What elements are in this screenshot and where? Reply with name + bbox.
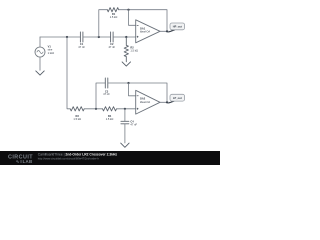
wire: R1 to output node [119, 10, 167, 32]
wire: C3 to LP output node [108, 83, 167, 102]
node: OA1 output junction [166, 30, 168, 32]
svg-text:1 kHz: 1 kHz [48, 51, 55, 55]
svg-text:Ideal-OA: Ideal-OA [140, 30, 151, 34]
svg-text:1.5 kΩ: 1.5 kΩ [110, 15, 118, 19]
node: junction to LP branch [66, 36, 68, 38]
resistor R4 [103, 107, 117, 111]
svg-text:CamilloantiThree | 2nd-Order L: CamilloantiThree | 2nd-Order LR2 Crossov… [38, 153, 118, 157]
OA1 label "OA1 Ideal-OA" [140, 26, 151, 33]
resistor R3 [70, 107, 84, 111]
svg-text:HP_out: HP_out [173, 25, 182, 29]
op-amp OA1 [136, 20, 160, 43]
ground (below V1) [36, 71, 44, 75]
wire: feedback down to op-amp - input [129, 10, 136, 26]
R2 label "R2 1.5 kΩ" [130, 45, 138, 52]
capacitor C1 [80, 32, 83, 42]
wire: OA1 output stub [160, 30, 170, 32]
svg-text:47 nF: 47 nF [108, 45, 115, 49]
svg-text:1.5 kΩ: 1.5 kΩ [130, 49, 138, 53]
node: C4 tap [124, 108, 126, 110]
R1 label "R1 1.5 kΩ" [110, 12, 118, 19]
wire: feedback down to OA2 - input [129, 83, 136, 96]
svg-text:OA2: OA2 [140, 97, 146, 101]
OA2 label "OA2 Ideal-OA" [140, 97, 151, 104]
wire: C1 to C2 [83, 36, 111, 38]
wire: main HP rail from V1 to C1 [40, 36, 80, 38]
op-amp OA2 [136, 90, 160, 114]
svg-text:http://www.circuitlab.com/circ: http://www.circuitlab.com/circuit/6f9e47… [38, 156, 99, 160]
wire: C4 tap down [124, 109, 126, 122]
ground (below R2) [122, 62, 130, 66]
wire: OA2 output stub [160, 101, 170, 103]
resistor R2 [124, 37, 128, 62]
wire: R3 to R4 [84, 108, 102, 110]
capacitor C3 [105, 78, 108, 88]
wire: V1 top up to main rail [39, 37, 41, 47]
R3 label "R3 1.5 kΩ" [73, 114, 81, 121]
voltage source V1 [35, 47, 45, 57]
R4 label "R4 1.5 kΩ" [106, 114, 114, 121]
V1 label "V1 sine 1 kHz" [48, 45, 55, 55]
ground (below C4) [121, 143, 129, 147]
svg-text:1.5 kΩ: 1.5 kΩ [106, 117, 114, 121]
wire: R4 to op-amp + input [117, 108, 136, 110]
C4 label "C4 47 nF" [130, 120, 137, 127]
wire: V1 bottom to ground [39, 57, 41, 70]
wire: HP feedback rail up from tap [99, 10, 108, 37]
wire: vertical rail from HP to LP stage [67, 37, 70, 109]
svg-text:Ideal-OA: Ideal-OA [140, 100, 151, 104]
svg-text:LP_out: LP_out [173, 96, 182, 100]
svg-text:∿≡LAB: ∿≡LAB [16, 159, 33, 164]
node: LP minus tap on feedback [127, 82, 129, 84]
C2 label "C2 47 nF" [108, 42, 115, 49]
flag HP_out [167, 23, 185, 33]
node: HP feedback tap [98, 36, 100, 38]
capacitor C2 [111, 32, 114, 42]
title bar [0, 151, 220, 165]
svg-text:47 nF: 47 nF [78, 45, 85, 49]
resistor R1 [107, 8, 118, 12]
C3 label "C3 47 nF" [103, 89, 110, 96]
node: R2 tap [125, 36, 127, 38]
svg-text:1.5 kΩ: 1.5 kΩ [73, 117, 81, 121]
svg-text:47 nF: 47 nF [130, 123, 137, 127]
wire: C4 to ground [124, 124, 126, 143]
svg-text:47 nF: 47 nF [103, 92, 110, 96]
wire: C2 to op-amp + input [113, 36, 136, 38]
C1 label "C1 47 nF" [78, 42, 85, 49]
wire: LP feedback rail up from tap [96, 83, 105, 109]
flag LP_out [167, 94, 185, 103]
node: HP minus tap on feedback [127, 9, 129, 11]
node: OA2 output junction [166, 101, 168, 103]
node: LP feedback tap [95, 108, 97, 110]
capacitor C4 [121, 121, 129, 124]
